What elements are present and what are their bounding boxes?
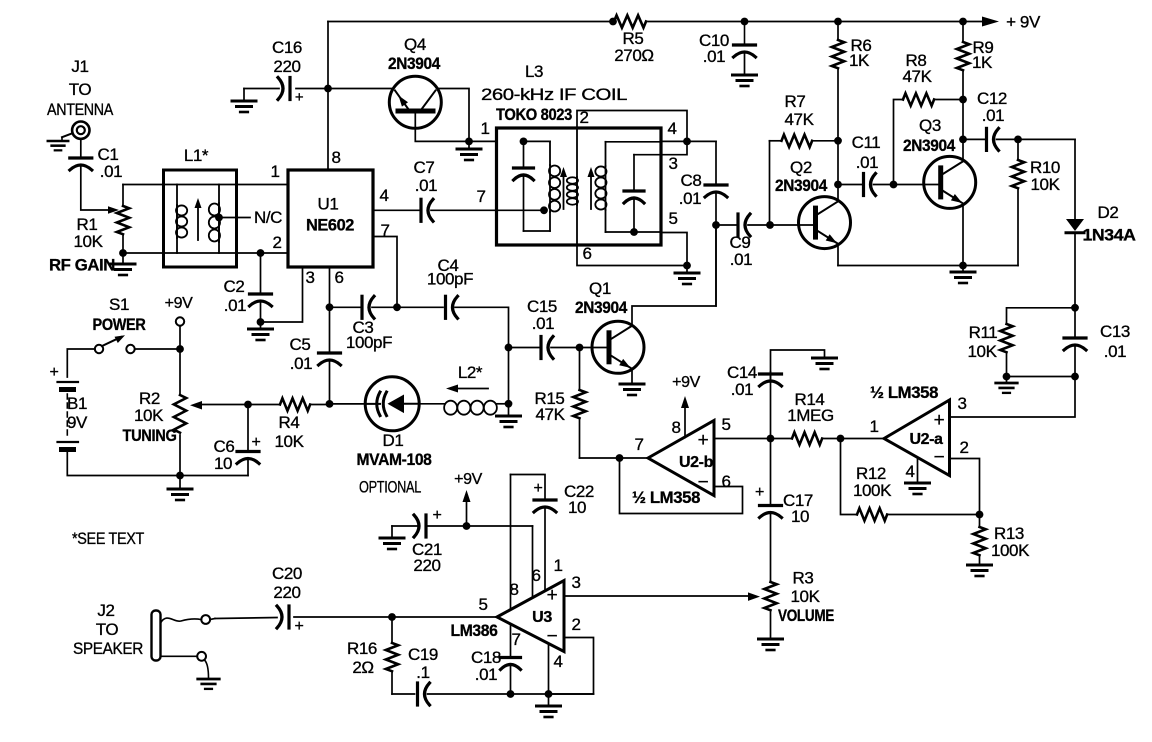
svg-text:47K: 47K [784,110,814,129]
svg-text:1: 1 [869,417,878,436]
svg-text:220: 220 [413,556,440,575]
svg-text:7: 7 [476,187,485,206]
svg-text:U2-b: U2-b [679,454,714,471]
svg-text:R7: R7 [785,92,806,111]
wire [511,693,594,695]
connector J1 [47,57,114,139]
svg-text:2N3904: 2N3904 [903,136,956,155]
L3 pin 4 label [667,119,676,138]
svg-text:8: 8 [331,148,340,167]
wire: U3 pin 6 [532,526,534,597]
svg-text:.01: .01 [982,106,1004,125]
node +9V (U3 supply) [454,471,482,530]
svg-text:1: 1 [270,162,279,181]
wire: L3 pin 5 [661,233,687,266]
svg-text:U2-a: U2-a [909,431,943,448]
svg-text:N/C: N/C [254,208,282,227]
svg-text:½ LM358: ½ LM358 [870,383,938,402]
svg-text:5: 5 [668,209,677,228]
svg-text:ANTENNA: ANTENNA [47,100,114,119]
svg-text:.01: .01 [856,153,878,172]
svg-text:7: 7 [511,630,520,649]
svg-text:100pF: 100pF [346,333,392,352]
svg-text:+: + [50,364,59,381]
wire: L3 pin 6 [577,245,691,269]
svg-text:220: 220 [273,583,300,602]
capacitor C17 [755,439,813,582]
svg-text:2Ω: 2Ω [352,658,373,677]
L3 pin 6 label [582,244,591,263]
transformer L3 (260-kHz IF coil) [481,62,661,245]
wire: rail riser to U1 pin 8 [324,22,332,171]
svg-text:TO: TO [69,80,92,99]
op-amp U2-a (1/2 LM358) [870,383,950,476]
connector J2 [73,601,210,661]
wire [210,619,215,620]
wire [67,349,95,377]
wire [176,472,184,480]
wire [243,89,245,101]
ground [951,266,975,284]
L3 link winding [567,128,578,245]
svg-text:C13: C13 [1100,322,1130,341]
wire: U3 output pin 5 [294,613,497,621]
U3 pin 2 label [571,615,580,634]
svg-text:3: 3 [957,394,966,413]
wire: Q3 emitter [962,204,964,266]
U3 pin 8 label [509,580,518,599]
inductor L2 [444,363,508,415]
wire: U2-a pin 4 [917,458,919,483]
svg-text:MVAM-108: MVAM-108 [357,450,432,469]
ground [996,377,1018,393]
svg-text:.01: .01 [475,665,497,684]
svg-text:10K: 10K [274,432,304,451]
U2-a pin 1 label [869,417,878,436]
capacitor C6 [180,405,261,476]
svg-text:C20: C20 [272,564,302,583]
capacitor C5 [290,307,341,403]
svg-text:3: 3 [668,154,677,173]
U1 pin 1 label [270,162,279,181]
U1 pin 3 label [305,268,314,287]
wire: U2-b output pin 7 [580,454,649,462]
L3 pin 3 label [668,154,677,173]
wire: U1 pin 6 [326,267,334,311]
svg-text:4: 4 [905,462,914,481]
svg-text:Q2: Q2 [790,158,812,177]
diode D2 (1N34A) [1066,139,1136,307]
svg-text:3: 3 [571,573,580,592]
ground [675,266,699,285]
capacitor C12 [963,89,1018,150]
svg-text:10: 10 [214,454,232,473]
svg-text:+: + [755,484,764,501]
svg-text:10: 10 [791,507,809,526]
ground [48,137,68,150]
svg-text:10K: 10K [134,406,164,425]
svg-text:47K: 47K [535,405,565,424]
svg-text:.01: .01 [703,47,725,66]
svg-text:270Ω: 270Ω [614,46,653,65]
L3 pin 5 label [668,209,677,228]
L3 primary winding [524,141,561,231]
wire: Q4 emitter [328,88,392,90]
battery B1 [50,364,89,450]
svg-text:TO: TO [96,620,119,639]
L3 internal capacitor (right) [624,155,661,236]
wire [119,249,163,257]
U3 pin 5 label [478,595,487,614]
wire: U3 pin 3 to volume [564,592,760,601]
svg-text:6: 6 [582,244,591,263]
ground [620,384,644,395]
svg-text:S1: S1 [109,295,129,314]
capacitor C7 [373,158,497,221]
svg-text:1K: 1K [972,53,993,72]
svg-text:5: 5 [721,415,730,434]
svg-text:RF GAIN: RF GAIN [49,256,115,275]
svg-text:B1: B1 [67,394,87,413]
wire [576,344,610,352]
svg-text:OPTIONAL: OPTIONAL [359,478,421,497]
wire: U3 pin 4 [545,644,553,698]
wire [67,452,180,476]
svg-text:C5: C5 [290,335,311,354]
transistor Q3 [903,116,976,208]
potentiometer R2 (TUNING) [123,349,187,476]
U3 pin 7 label [511,630,520,649]
svg-text:2N3904: 2N3904 [775,176,828,195]
U1 pin 7 label [380,221,389,240]
svg-text:D1: D1 [383,431,404,450]
svg-text:100K: 100K [991,541,1030,560]
capacitor C10 [699,22,756,74]
resistor R12 [841,439,980,521]
wire [205,660,209,678]
U2-b pin 5 label [721,415,730,434]
svg-text:Q4: Q4 [404,35,426,54]
wire [1014,136,1075,144]
svg-text:100K: 100K [853,481,892,500]
U1 pin 6 label [334,268,343,287]
L2 arrow [446,385,488,393]
svg-text:.01: .01 [730,250,752,269]
svg-text:1: 1 [553,556,562,575]
ground [733,75,757,86]
coupling arrows [560,167,595,209]
wire [419,403,444,405]
svg-text:.01: .01 [100,162,122,181]
wire: U2-b pin 5 [714,435,774,443]
wire: L3 pin 4 [661,138,716,146]
varactor D1 (MVAM-108) [357,377,432,469]
capacitor C8 [679,141,727,306]
node +9V (U2-b pin 8) [672,374,700,438]
wire: +9V supply rail [328,17,999,27]
transistor Q1 [575,279,644,373]
svg-text:4: 4 [379,186,388,205]
svg-text:2N3904: 2N3904 [575,298,628,317]
svg-text:.01: .01 [731,380,753,399]
U3 pin 6 label [531,566,540,585]
svg-text:100pF: 100pF [427,270,473,289]
svg-text:+ 9V: + 9V [1006,13,1041,32]
wire [135,345,184,353]
resistor R8 [894,51,964,185]
svg-text:+: + [534,480,543,497]
svg-text:.01: .01 [532,314,554,333]
svg-text:.01: .01 [1104,342,1126,361]
wire: Q1 collector [632,225,716,326]
svg-text:+9V: +9V [672,374,700,391]
resistor R6 [832,22,872,141]
svg-text:.01: .01 [290,354,312,373]
svg-text:9V: 9V [67,413,88,432]
svg-text:LM386: LM386 [451,621,498,640]
svg-text:+9V: +9V [454,471,482,488]
resistor R15 [535,348,586,459]
ground [968,565,992,576]
svg-text:6: 6 [721,472,730,491]
transistor Q2 [775,158,851,249]
resistor R13 [973,511,1030,564]
svg-text:Q3: Q3 [919,116,941,135]
svg-text:260-kHz IF COIL: 260-kHz IF COIL [481,85,627,104]
L3 internal tuning capacitor (left) [514,138,551,232]
U3 pin 4 label [553,652,562,671]
ground [168,476,192,501]
svg-text:R3: R3 [793,569,814,588]
L3 pin 7 label [476,187,485,206]
ground [497,416,521,427]
resistor R10 [1012,139,1061,265]
wire: Q4 collector [438,89,469,142]
ground [198,679,220,689]
wire [505,344,513,414]
svg-text:7: 7 [634,435,643,454]
svg-text:1: 1 [480,119,489,138]
wire [766,221,816,229]
ground [249,322,273,340]
capacitor C18 [471,624,521,698]
wire [123,184,164,186]
wire: Q3 collector [959,136,967,162]
svg-text:VOLUME: VOLUME [778,606,834,625]
wire [257,267,303,326]
svg-text:.01: .01 [679,189,701,208]
svg-text:−: − [934,447,945,468]
svg-text:L3: L3 [525,62,543,81]
svg-text:5: 5 [478,595,487,614]
svg-text:.01: .01 [415,176,437,195]
svg-text:C19: C19 [408,645,438,664]
wire: U3 pin 2 loop [549,638,594,695]
capacitor C22 [511,475,595,591]
svg-text:10K: 10K [790,587,820,606]
transistor Q4 [388,35,441,128]
svg-text:47K: 47K [902,67,932,86]
svg-text:TUNING: TUNING [123,426,177,445]
wire [81,166,119,214]
svg-text:10K: 10K [967,342,997,361]
L3 pin 2 label [579,108,588,127]
svg-text:+: + [698,430,709,451]
L3 pin 1 label [480,119,489,138]
switch S1 (POWER) [93,295,146,353]
svg-text:2: 2 [571,615,580,634]
op-amp U1 NE602 [288,170,373,267]
resistor R16 [347,617,398,694]
op-amp U3 LM386 [451,581,565,652]
wire [890,181,941,189]
svg-text:R11: R11 [969,323,998,342]
svg-text:J1: J1 [71,57,88,76]
svg-text:+: + [295,618,304,635]
node +9V (S1) [165,295,193,349]
capacitor C11 [838,133,894,196]
ground [906,483,930,494]
resistor R5 [614,15,654,65]
svg-text:+9V: +9V [165,295,193,312]
svg-text:R16: R16 [347,639,377,658]
transformer L1 [164,146,289,267]
ground [759,639,783,650]
svg-text:C8: C8 [681,171,702,190]
U1 pin 8 label [331,148,340,167]
capacitor C9 [712,214,770,269]
svg-text:10K: 10K [73,232,103,251]
capacitor C16 [244,38,328,106]
svg-text:C16: C16 [272,38,302,57]
svg-text:4: 4 [553,652,562,671]
svg-text:4: 4 [667,119,676,138]
ground [813,358,837,369]
svg-text:.1: .1 [416,663,429,682]
svg-text:6: 6 [531,566,540,585]
capacitor C1 [70,145,122,181]
svg-text:C2: C2 [224,277,245,296]
wire: U2-b feedback pin 6 [620,458,743,514]
capacitor C20 [215,564,304,635]
ground [111,253,135,275]
svg-text:8: 8 [671,418,680,437]
U2-a pin 3 label [957,394,966,413]
wire: emitter rail [838,262,1018,270]
wire: U3 pin 8 [510,475,512,610]
capacitor C13 [1064,304,1130,381]
resistor R9 [957,22,994,140]
wire: L3 pin 1 [469,140,497,142]
resistor R14 [771,390,841,445]
svg-text:1N34A: 1N34A [1083,226,1136,245]
svg-text:R4: R4 [279,413,300,432]
capacitor C19 [392,645,511,705]
op-amp U2-b (1/2 LM358) [632,421,714,508]
resistor R11 [967,308,1075,381]
svg-text:1K: 1K [849,51,870,70]
wire: Q4 base [415,113,473,145]
U3 pin 1 label [553,556,562,575]
svg-text:C7: C7 [414,158,435,177]
potentiometer R1 (RF GAIN) [49,185,129,275]
ground [232,101,256,112]
svg-text:10: 10 [568,498,586,517]
U2-b pin 8 label [671,418,680,437]
wire: L3 pin 2 loop [577,111,687,142]
svg-text:U1: U1 [318,195,339,214]
ground [457,141,481,160]
resistor R4 [248,398,330,451]
wire: U1 pin 2 [257,249,265,257]
svg-text:+: + [433,507,442,524]
svg-text:D2: D2 [1098,203,1119,222]
potentiometer R3 (VOLUME) [764,569,834,638]
svg-text:+: + [252,434,261,451]
capacitor C15 [509,297,580,359]
wire: U2-a pin 2 [950,459,980,515]
U1 pin 4 label [379,186,388,205]
wire: U1 pin 7 [373,237,401,312]
svg-text:L1*: L1* [184,146,209,165]
svg-text:+: + [295,89,304,106]
capacitor C14 [727,350,825,439]
svg-text:+: + [547,585,558,606]
capacitor C2 [224,253,272,322]
svg-text:C11: C11 [852,133,881,152]
svg-text:*SEE TEXT: *SEE TEXT [72,529,144,548]
svg-text:1MEG: 1MEG [787,406,834,425]
svg-text:6: 6 [334,268,343,287]
svg-text:U3: U3 [532,609,552,626]
wire [80,139,82,157]
U1 pin 2 label [272,233,281,252]
node N/C [215,208,282,227]
U2-a pin 4 label [905,462,914,481]
OPTIONAL label [359,478,421,497]
svg-text:SPEAKER: SPEAKER [73,639,143,658]
wire: Q1 emitter [631,369,633,382]
U2-b pin 7 label [634,435,643,454]
svg-text:POWER: POWER [93,315,146,334]
svg-text:220: 220 [273,57,300,76]
wire: into L3 pin 7 [497,206,548,214]
note *SEE TEXT [72,529,144,548]
ground [537,694,561,717]
svg-text:+: + [934,410,945,431]
wire: R2 wiper [190,401,252,410]
wire: U2-a pin 3 [950,377,1076,418]
svg-text:½ LM358: ½ LM358 [632,488,700,507]
svg-text:2: 2 [272,233,281,252]
L3 secondary winding [595,142,661,232]
svg-text:TOKO 8023: TOKO 8023 [496,105,572,124]
svg-text:.01: .01 [224,296,246,315]
ground [380,526,404,549]
wire: Q2 collector [834,141,842,202]
resistor R7 [770,92,842,225]
U3 pin 3 label [571,573,580,592]
U2-b pin 6 label [721,472,730,491]
wire: Q2 emitter [837,244,839,266]
wire [326,400,366,408]
svg-text:J2: J2 [97,601,114,620]
wire: L3 pin 3 [661,141,687,154]
node +9V (top right label) [1006,13,1041,32]
svg-text:10K: 10K [1030,175,1060,194]
capacitor C3 [330,296,398,352]
svg-text:8: 8 [509,580,518,599]
